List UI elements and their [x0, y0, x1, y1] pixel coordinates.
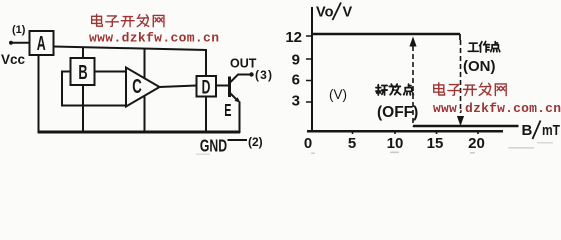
svg-text:A: A [37, 32, 46, 55]
svg-text:B: B [522, 122, 533, 139]
svg-text:12: 12 [285, 29, 302, 46]
svg-text:(V): (V) [329, 87, 347, 102]
svg-text:B: B [78, 61, 87, 84]
svg-text:OUT: OUT [230, 57, 257, 71]
svg-text:0: 0 [304, 135, 312, 152]
svg-text:www.dzkfw.com.cn: www.dzkfw.com.cn [433, 101, 561, 116]
svg-text:(ON): (ON) [463, 58, 496, 75]
svg-text:6: 6 [292, 72, 300, 89]
svg-text:5: 5 [348, 135, 356, 152]
svg-text:3: 3 [292, 93, 300, 110]
svg-text:Vcc: Vcc [1, 52, 26, 67]
svg-text:mT: mT [542, 122, 560, 139]
svg-text:GND: GND [200, 136, 227, 156]
svg-text:10: 10 [387, 135, 404, 152]
svg-text:15: 15 [427, 135, 444, 152]
svg-text:(3): (3) [255, 68, 272, 82]
svg-text:(OFF): (OFF) [377, 104, 418, 121]
svg-text:E: E [224, 101, 231, 120]
svg-text:9: 9 [292, 52, 300, 69]
svg-text:www.dzkfw.com.cn: www.dzkfw.com.cn [89, 31, 219, 46]
svg-text:V: V [343, 5, 353, 21]
svg-text:C: C [132, 75, 142, 97]
svg-text:Vo: Vo [316, 5, 334, 21]
svg-text:D: D [202, 78, 211, 98]
svg-text:20: 20 [468, 135, 485, 152]
svg-text:(2): (2) [248, 135, 263, 149]
svg-text:(1): (1) [12, 24, 26, 36]
